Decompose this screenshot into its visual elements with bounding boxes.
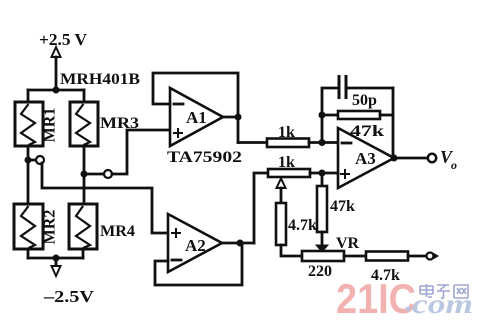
svg-text:VR: VR bbox=[336, 235, 360, 252]
svg-text:1k: 1k bbox=[278, 154, 295, 171]
wire bridge top bbox=[28, 89, 84, 92]
A2 feedback loop wire bbox=[155, 243, 242, 285]
A1 feedback loop wire bbox=[153, 73, 238, 143]
wire A2 output up to 1k bbox=[254, 173, 268, 243]
output terminal circle bbox=[428, 154, 436, 162]
op-amp A1 bbox=[170, 88, 223, 146]
wire node to 47k vertical bbox=[321, 173, 324, 186]
wire feedback left vertical bbox=[322, 88, 337, 143]
resistor 1k R2 bbox=[268, 169, 310, 177]
svg-text:4.7k: 4.7k bbox=[288, 217, 317, 234]
A3 minus sign bbox=[342, 142, 351, 145]
resistor 47k feedback bbox=[338, 111, 380, 119]
A2 plus sign bbox=[171, 228, 181, 238]
capacitor 50p plates bbox=[339, 75, 346, 99]
wire A1 output bbox=[223, 116, 238, 119]
svg-text:MR4: MR4 bbox=[100, 223, 135, 240]
wire cap right bbox=[348, 87, 393, 90]
wire to -2.5V arrow bbox=[55, 258, 58, 266]
svg-text:A2: A2 bbox=[185, 236, 206, 255]
svg-text:1k: 1k bbox=[278, 124, 295, 141]
node bridge bottom junction bbox=[53, 255, 60, 262]
output terminal circle right bbox=[427, 253, 434, 260]
svg-text:o: o bbox=[451, 158, 457, 172]
wire MR3 top stub bbox=[83, 90, 86, 102]
svg-text:A3: A3 bbox=[355, 149, 376, 168]
wire node to terminal bbox=[28, 159, 36, 162]
wire arrow to 4.7k bbox=[280, 188, 283, 203]
wire left terminal to A2 + input bbox=[42, 163, 168, 233]
node right bridge output bbox=[81, 171, 88, 178]
resistor 4.7k vertical bbox=[276, 203, 286, 245]
wire MR4 bottom stub bbox=[82, 249, 85, 258]
wire 4.7k bottom to VR bbox=[281, 245, 302, 256]
wire right terminal to A1 + input bbox=[112, 130, 170, 174]
svg-text:MR1: MR1 bbox=[42, 108, 59, 143]
node A3 output bbox=[391, 155, 398, 162]
node A2 output bbox=[237, 240, 244, 247]
wire A3 output bbox=[394, 157, 428, 160]
op-amp A3 bbox=[338, 128, 394, 188]
wire node to right terminal bbox=[84, 173, 104, 176]
svg-text:–2.5V: –2.5V bbox=[43, 287, 95, 306]
A1 plus sign bbox=[173, 128, 183, 138]
resistor 1k R1 bbox=[267, 139, 309, 148]
svg-text:TA75902: TA75902 bbox=[167, 149, 242, 166]
wiper arrow under 1k R2 bbox=[277, 179, 286, 189]
wire VR to 4.7k bbox=[344, 255, 366, 258]
power +2.5V arrow terminal bbox=[52, 47, 61, 57]
resistor 4.7k output bbox=[366, 252, 408, 261]
svg-text:47k: 47k bbox=[330, 198, 355, 215]
potentiometer VR 220 bbox=[302, 251, 344, 261]
terminal arrow tip bbox=[433, 253, 439, 260]
node bridge top junction bbox=[53, 87, 60, 94]
wire +2.5V to bridge top bbox=[55, 57, 58, 90]
wire right branch MR3 to MR4 bbox=[83, 146, 86, 204]
wire left branch MR1 to MR2 bbox=[27, 146, 30, 204]
svg-text:50p: 50p bbox=[352, 92, 377, 109]
node A3 noninverting input bbox=[319, 170, 326, 177]
svg-text:MRH401B: MRH401B bbox=[60, 71, 140, 88]
node left bridge output bbox=[25, 157, 32, 164]
watermark dianziwang char 2 bbox=[437, 285, 450, 298]
terminal circle right bbox=[104, 170, 112, 178]
magnetoresistor MR3 bbox=[70, 102, 98, 146]
node A1 output bbox=[235, 114, 242, 121]
A1 minus sign bbox=[174, 103, 183, 106]
node A3 inverting input bbox=[319, 139, 326, 146]
wire 47k bottom bbox=[321, 232, 324, 245]
watermark dianziwang char 1 bbox=[420, 284, 433, 297]
wire MR2 bottom stub bbox=[27, 249, 30, 258]
VR wiper arrow bbox=[316, 245, 328, 252]
magnetoresistor MR1 bbox=[15, 102, 43, 146]
wire feedback right vertical to output bbox=[392, 88, 395, 158]
wire 1k R1 to node bbox=[309, 141, 338, 144]
wire 47k to right vertical bbox=[380, 114, 393, 117]
svg-text:A1: A1 bbox=[186, 108, 207, 127]
wire to 47k feedback bbox=[322, 114, 338, 117]
wire 4.7k to terminal bbox=[408, 255, 426, 258]
svg-text:MR2: MR2 bbox=[42, 210, 59, 245]
wire 1k R2 to node bbox=[310, 172, 338, 175]
node feedback split bbox=[319, 112, 326, 119]
magnetoresistor MR2 bbox=[14, 204, 43, 249]
wire A1 output to 1k R1 bbox=[238, 141, 267, 144]
resistor 47k vertical bbox=[317, 186, 327, 232]
wire MR1 top stub bbox=[27, 90, 30, 102]
A2 minus sign bbox=[172, 259, 181, 262]
watermark dianziwang char 3 bbox=[454, 285, 468, 298]
A3 plus sign bbox=[340, 169, 350, 179]
op-amp A2 bbox=[168, 214, 222, 272]
magnetoresistor MR4 bbox=[69, 204, 97, 249]
wire bridge bottom bbox=[28, 257, 83, 260]
terminal circle left bbox=[36, 156, 44, 164]
power -2.5V arrow terminal bbox=[52, 266, 61, 276]
svg-text:+2.5 V: +2.5 V bbox=[39, 30, 88, 49]
wire A2 output bbox=[222, 242, 254, 245]
svg-text:220: 220 bbox=[308, 263, 332, 280]
